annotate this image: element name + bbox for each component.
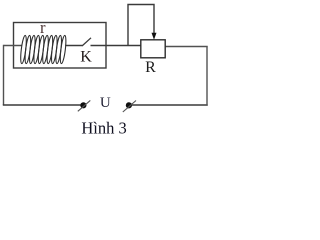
svg-text:R: R [145,59,156,76]
svg-text:Hình 3: Hình 3 [81,119,126,138]
svg-text:U: U [100,95,111,111]
svg-text:r: r [40,18,46,37]
svg-text:K: K [80,49,92,66]
